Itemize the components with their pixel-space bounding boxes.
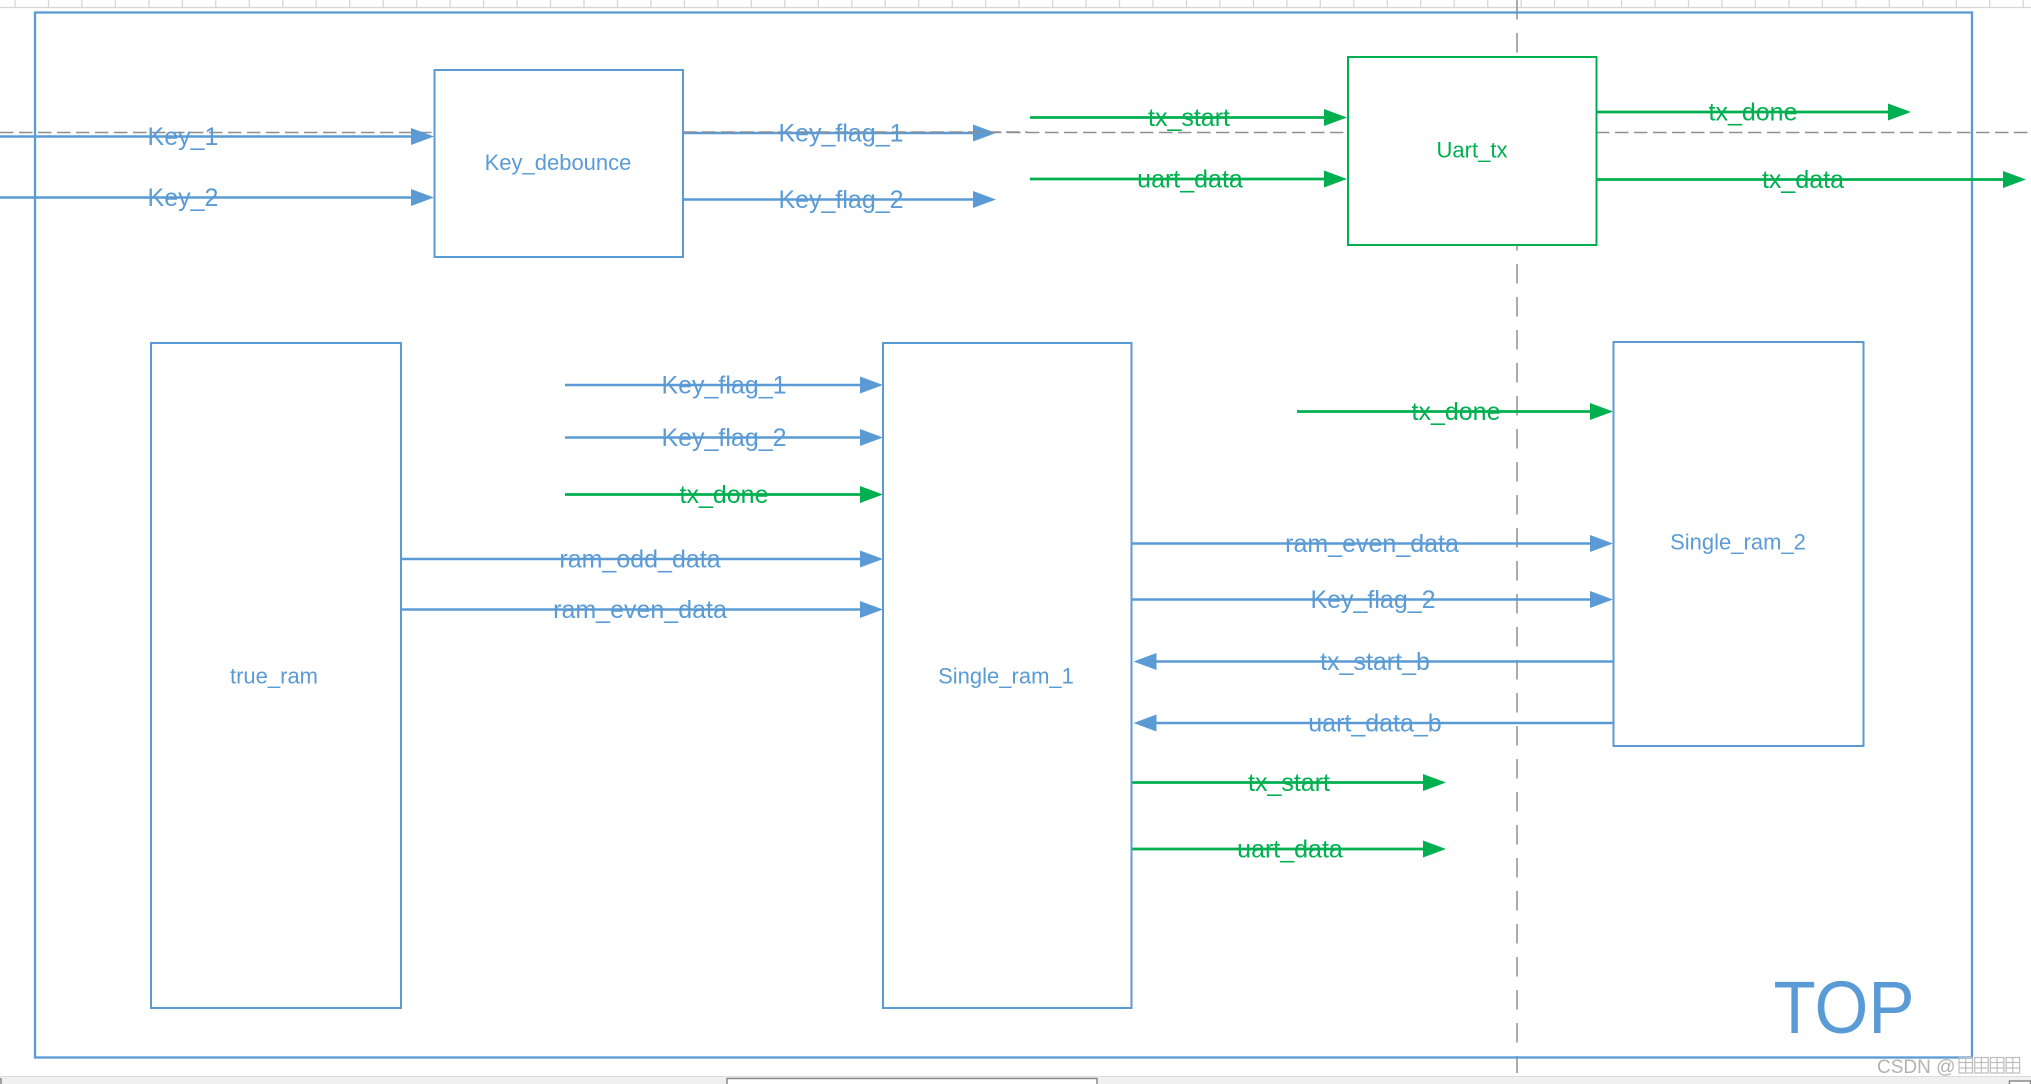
svg-text:ram_even_data: ram_even_data	[1285, 530, 1459, 558]
wire ram_odd_data	[401, 546, 883, 574]
svg-text:uart_data: uart_data	[1137, 166, 1243, 194]
block Uart_tx	[1348, 57, 1597, 245]
wire uart_data	[1030, 166, 1347, 194]
block Key_debounce	[435, 70, 684, 257]
wire Key_1	[0, 123, 434, 151]
wire Key_flag_2	[683, 186, 996, 214]
wire tx_start_b	[1134, 648, 1614, 676]
svg-text:true_ram: true_ram	[230, 664, 318, 689]
wire Key_flag_2	[565, 424, 883, 452]
wire Key_flag_1	[683, 120, 1027, 148]
wire ram_even_data	[401, 596, 883, 624]
wire uart_data_b	[1134, 710, 1614, 738]
svg-text:TOP: TOP	[1774, 966, 1915, 1049]
svg-text:Key_2: Key_2	[148, 184, 219, 212]
svg-text:ram_odd_data: ram_odd_data	[559, 546, 720, 574]
svg-text:Single_ram_2: Single_ram_2	[1670, 530, 1806, 555]
svg-text:Key_flag_1: Key_flag_1	[661, 372, 786, 400]
wire tx_done	[1597, 99, 1912, 127]
svg-text:tx_done: tx_done	[680, 481, 769, 509]
wire ram_even_data	[1132, 530, 1614, 558]
svg-text:tx_start: tx_start	[1148, 104, 1230, 132]
svg-text:ram_even_data: ram_even_data	[553, 596, 727, 624]
svg-text:Key_1: Key_1	[148, 123, 219, 151]
block true_ram	[151, 343, 401, 1008]
wire Key_flag_1	[565, 372, 883, 400]
page-break dashed line vertical	[1516, 0, 1518, 1073]
svg-text:tx_data: tx_data	[1762, 166, 1844, 194]
svg-text:tx_done: tx_done	[1709, 99, 1798, 127]
svg-text:Key_debounce: Key_debounce	[485, 150, 632, 175]
wire tx_done	[1297, 398, 1613, 426]
wire uart_data	[1132, 836, 1447, 864]
svg-text:Key_flag_2: Key_flag_2	[661, 424, 786, 452]
wire tx_data	[1597, 166, 2027, 194]
wire tx_start	[1030, 104, 1347, 132]
svg-text:tx_start_b: tx_start_b	[1320, 648, 1430, 676]
watermark CSDN	[1877, 1057, 2020, 1078]
svg-text:uart_data_b: uart_data_b	[1308, 710, 1441, 738]
wire tx_done	[565, 481, 883, 509]
svg-text:Single_ram_1: Single_ram_1	[938, 664, 1074, 689]
svg-text:Key_flag_2: Key_flag_2	[1310, 586, 1435, 614]
svg-text:CSDN @: CSDN @	[1877, 1057, 1955, 1078]
svg-text:Key_flag_1: Key_flag_1	[778, 120, 903, 148]
page-break dashed line horizontal	[0, 132, 2031, 134]
svg-text:tx_done: tx_done	[1412, 398, 1501, 426]
block Single_ram_2	[1614, 342, 1864, 746]
wire Key_2	[0, 184, 434, 212]
wire Key_flag_2	[1132, 586, 1614, 614]
svg-text:tx_start: tx_start	[1248, 769, 1330, 797]
svg-text:Key_flag_2: Key_flag_2	[778, 186, 903, 214]
svg-text:uart_data: uart_data	[1237, 836, 1343, 864]
svg-text:Uart_tx: Uart_tx	[1437, 138, 1508, 163]
block Single_ram_1	[883, 343, 1132, 1008]
wire tx_start	[1132, 769, 1447, 797]
